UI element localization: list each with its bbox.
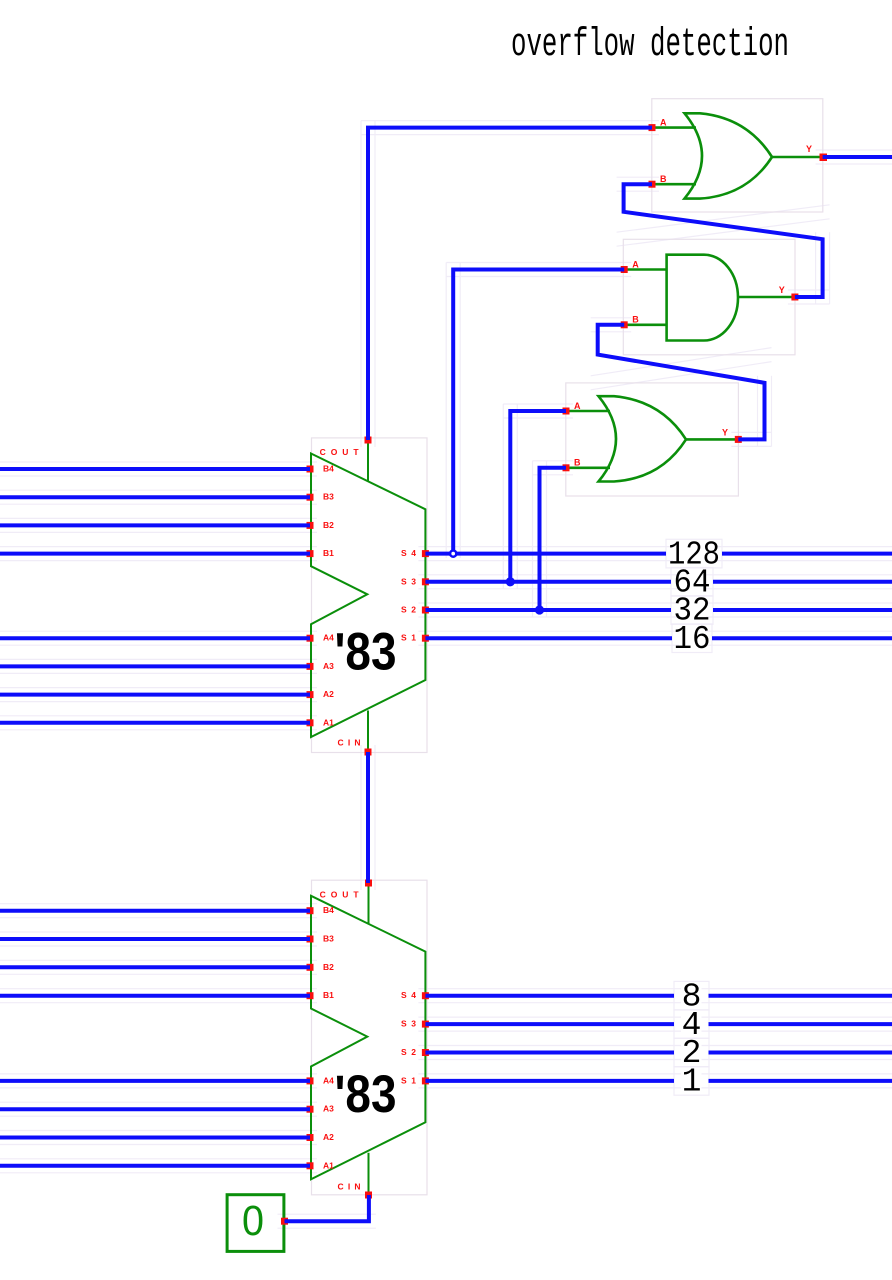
wire COUT adder U4 to or-gate U1 input A bbox=[368, 128, 652, 440]
wire S3 output 4 left part adder U5 bbox=[425, 1022, 674, 1026]
adder U4 pin S2 bbox=[422, 607, 429, 614]
wire A3 input adder U5 bbox=[0, 1107, 310, 1111]
svg-text:A: A bbox=[574, 401, 581, 411]
wire A2 input adder U4 bbox=[0, 693, 310, 697]
adder U4 pin A4 bbox=[307, 635, 314, 642]
adder U4 pin S1 bbox=[422, 635, 429, 642]
svg-text:B3: B3 bbox=[323, 934, 334, 944]
wire S1 output 1 left part adder U5 bbox=[425, 1079, 674, 1083]
svg-text:A3: A3 bbox=[323, 661, 334, 671]
svg-text:A1: A1 bbox=[323, 717, 334, 727]
svg-text:B: B bbox=[632, 315, 639, 325]
svg-text:0: 0 bbox=[242, 1197, 264, 1245]
adder U5 pin S1 bbox=[422, 1077, 429, 1084]
wire S1 output 16 left part bbox=[425, 636, 672, 640]
svg-text:B3: B3 bbox=[323, 492, 334, 502]
svg-text:'83: '83 bbox=[335, 1065, 397, 1124]
adder U5 pin A2 bbox=[307, 1134, 314, 1141]
wire B4 input adder U5 bbox=[0, 909, 310, 913]
svg-text:CIN: CIN bbox=[338, 1182, 361, 1192]
wire B1 input adder U4 bbox=[0, 552, 310, 556]
wire S2 output 32 right part bbox=[713, 608, 892, 612]
wire 32 net to or-gate U3 input B bbox=[540, 468, 567, 610]
or-gate U1 pin A bbox=[649, 124, 656, 131]
wire B2 input adder U4 bbox=[0, 523, 310, 527]
adder U4 pin S3 bbox=[422, 578, 429, 585]
wire and-gate U2 output Y to or-gate U1 input B bbox=[624, 184, 823, 297]
svg-text:Y: Y bbox=[806, 144, 812, 154]
adder U4 pin B2 bbox=[307, 522, 314, 529]
svg-text:A: A bbox=[660, 118, 667, 128]
adder U4 pin B3 bbox=[307, 494, 314, 501]
and-gate U2 pin A bbox=[621, 266, 628, 273]
wire S4 output 128 right part bbox=[722, 552, 892, 556]
faint label boxes bbox=[666, 539, 722, 1095]
adder U5 pin S4 bbox=[422, 992, 429, 999]
adder U5 pin A1 bbox=[307, 1162, 314, 1169]
svg-text:A2: A2 bbox=[323, 1132, 334, 1142]
svg-text:B2: B2 bbox=[323, 962, 334, 972]
junction open dot on 128 net bbox=[450, 551, 456, 557]
wire constant 0 to CIN adder U5 bbox=[285, 1195, 369, 1221]
and-gate U2 box bbox=[623, 239, 795, 354]
junction dot on 64 net bbox=[506, 577, 515, 586]
wire S2 output 2 left part adder U5 bbox=[425, 1051, 674, 1055]
or-gate U1 pin B bbox=[649, 181, 656, 188]
adder U4 pin A1 bbox=[307, 719, 314, 726]
or-gate U3 pin B bbox=[563, 464, 570, 471]
svg-text:A2: A2 bbox=[323, 689, 334, 699]
wire S3 output 64 right part bbox=[713, 580, 892, 584]
wire A1 input adder U5 bbox=[0, 1164, 310, 1168]
adder U5 '83 body bbox=[311, 883, 425, 1195]
wire S4 output 128 left part bbox=[425, 552, 666, 556]
and-gate U2 pin B bbox=[621, 321, 628, 328]
adder U4 '83 box bbox=[312, 438, 428, 753]
constant 0 source bbox=[227, 1195, 284, 1252]
svg-text:B2: B2 bbox=[323, 520, 334, 530]
svg-text:B1: B1 bbox=[323, 548, 334, 558]
junction dot on 32 net bbox=[535, 605, 544, 614]
svg-text:A1: A1 bbox=[323, 1160, 334, 1170]
wire A4 input adder U4 bbox=[0, 636, 310, 640]
wire A2 input adder U5 bbox=[0, 1136, 310, 1140]
wire S3 output 4 right part adder U5 bbox=[709, 1022, 892, 1026]
wire CIN adder U4 to COUT adder U5 bbox=[366, 752, 370, 883]
adder U4 pin A2 bbox=[307, 691, 314, 698]
or-gate U3 pin A bbox=[563, 408, 570, 415]
adder U5 pin CIN bbox=[365, 1192, 372, 1199]
wire A3 input adder U4 bbox=[0, 664, 310, 668]
wire S2 output 2 right part adder U5 bbox=[709, 1051, 892, 1055]
svg-text:A: A bbox=[632, 259, 639, 269]
svg-text:A4: A4 bbox=[323, 1075, 334, 1085]
adder U4 '83 body bbox=[311, 440, 425, 752]
svg-text:A3: A3 bbox=[323, 1104, 334, 1114]
adder U4 pin B4 bbox=[307, 466, 314, 473]
wire S1 output 16 right part bbox=[712, 636, 892, 640]
and-gate U2 pin Y bbox=[791, 294, 798, 301]
svg-text:B4: B4 bbox=[323, 464, 334, 474]
adder U4 pin A3 bbox=[307, 663, 314, 670]
wire B3 input adder U5 bbox=[0, 937, 310, 941]
svg-text:'83: '83 bbox=[335, 623, 397, 682]
adder U4 pin COUT bbox=[365, 437, 372, 444]
adder U4 pin B1 bbox=[307, 550, 314, 557]
or-gate U1 body bbox=[652, 113, 823, 198]
adder U5 pin S3 bbox=[422, 1021, 429, 1028]
wire B2 input adder U5 bbox=[0, 965, 310, 969]
wire A4 input adder U5 bbox=[0, 1079, 310, 1083]
wire S4 output 8 right part adder U5 bbox=[709, 994, 892, 998]
wire B4 input adder U4 bbox=[0, 467, 310, 471]
or-gate U3 pin Y bbox=[735, 436, 742, 443]
svg-text:B4: B4 bbox=[323, 905, 334, 915]
svg-text:B1: B1 bbox=[323, 990, 334, 1000]
adder U5 '83 box bbox=[312, 880, 428, 1195]
wire S1 output 1 right part adder U5 bbox=[709, 1079, 892, 1083]
wire B1 input adder U5 bbox=[0, 994, 310, 998]
adder U5 pin COUT bbox=[365, 880, 372, 887]
svg-text:Y: Y bbox=[779, 285, 785, 295]
wire 64 net to or-gate U3 input A bbox=[510, 411, 566, 582]
adder U4 pin CIN bbox=[365, 749, 372, 756]
adder U5 pin A3 bbox=[307, 1106, 314, 1113]
svg-text:Y: Y bbox=[722, 427, 728, 437]
or-gate U3 body bbox=[566, 396, 738, 481]
adder U5 pin B1 bbox=[307, 992, 314, 999]
constant 0 output pin bbox=[281, 1218, 288, 1225]
svg-text:B: B bbox=[660, 174, 667, 184]
wire or-gate U3 output Y to and-gate U2 input B bbox=[598, 325, 765, 440]
wire 128 net to and-gate U2 input A bbox=[453, 270, 624, 552]
or-gate U1 box bbox=[652, 99, 823, 212]
adder U5 pin S2 bbox=[422, 1049, 429, 1056]
wire S4 output 8 left part adder U5 bbox=[425, 994, 674, 998]
wire S2 output 32 left part bbox=[425, 608, 671, 612]
wire S3 output 64 left part bbox=[425, 580, 671, 584]
svg-text:A4: A4 bbox=[323, 633, 334, 643]
and-gate U2 body bbox=[624, 255, 795, 341]
adder U5 pin B3 bbox=[307, 936, 314, 943]
svg-text:16: 16 bbox=[674, 621, 711, 658]
svg-text:CIN: CIN bbox=[338, 738, 361, 748]
svg-text:overflow detection: overflow detection bbox=[511, 23, 789, 68]
svg-text:1: 1 bbox=[682, 1064, 702, 1101]
wire or-gate U1 output Y overflow out bbox=[823, 155, 892, 159]
adder U5 pin B4 bbox=[307, 907, 314, 914]
or-gate U3 box bbox=[566, 383, 739, 496]
or-gate U1 pin Y bbox=[820, 154, 828, 162]
wire A1 input adder U4 bbox=[0, 721, 310, 725]
adder U5 pin B2 bbox=[307, 964, 314, 971]
adder U5 pin A4 bbox=[307, 1077, 314, 1084]
wire B3 input adder U4 bbox=[0, 495, 310, 499]
adder U4 pin S4 bbox=[422, 550, 429, 557]
svg-text:B: B bbox=[574, 458, 581, 468]
